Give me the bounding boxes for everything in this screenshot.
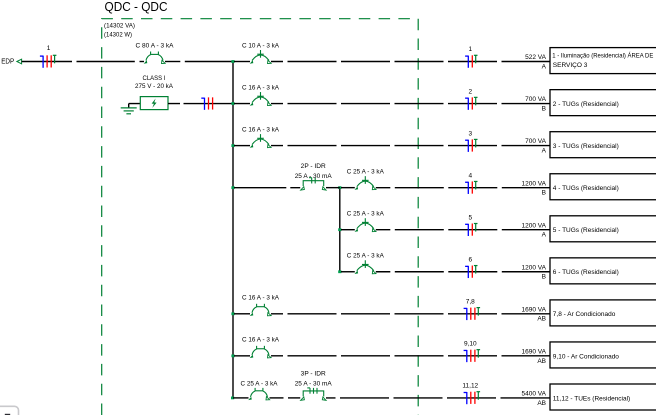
svg-text:7,8 - Ar Condicionado: 7,8 - Ar Condicionado (553, 311, 616, 318)
wire feeder segment 5 (185, 61, 234, 63)
surge protector U-DPS CLASS I (140, 97, 168, 110)
svg-text:QDC - QDC: QDC - QDC (105, 0, 168, 14)
svg-text:EDP: EDP (1, 58, 14, 65)
svg-text:B: B (542, 105, 546, 112)
DPS label CLASS I (143, 75, 166, 82)
circuit 3 phase label A (542, 148, 547, 155)
svg-text:CLASS I: CLASS I (143, 75, 166, 82)
svg-text:4: 4 (468, 172, 472, 179)
load box circuit 5 (550, 216, 656, 242)
circuit 4 phase label B (542, 190, 546, 197)
circuit 1 phase label A (542, 63, 547, 70)
breaker circuit 6 C 25 A - 3 kA (355, 260, 376, 274)
node bus-row3 junction (231, 144, 234, 147)
svg-text:C 25 A - 3 kA: C 25 A - 3 kA (347, 211, 385, 218)
wire circuit 2 bus to breaker (234, 103, 250, 105)
IDR 3P 25 A - 30 mA (301, 388, 326, 400)
load box circuit 3 (550, 132, 656, 158)
circuit 6 conductor marks (465, 266, 477, 279)
svg-text:522 VA: 522 VA (525, 54, 547, 61)
circuit 11,12 power label 5400 VA (522, 391, 547, 398)
panel power label (14302 VA) (104, 22, 135, 29)
circuit 9,10 power label 1690 VA (522, 348, 547, 355)
breaker circuit 5 C 25 A - 3 kA (355, 218, 376, 232)
circuit 5 power label 1200 VA (522, 222, 547, 229)
svg-text:A: A (542, 148, 547, 155)
svg-text:B: B (542, 190, 546, 197)
breaker circuit 9,10 C 16 A - 3 kA (250, 346, 271, 358)
wire circuit 1 breaker to box (271, 61, 550, 63)
circuit 11,12 number label (462, 383, 478, 390)
svg-text:1 - Iluminação (Residencial) Á: 1 - Iluminação (Residencial) ÁREA DE (552, 51, 654, 60)
wire circuit 9,10 breaker to box (271, 355, 550, 357)
load box circuit 2 (550, 90, 656, 116)
circuit 9,10 phase label AB (537, 358, 546, 365)
circuit 6 power label 1200 VA (522, 264, 547, 271)
wire circuit 1 bus to breaker (234, 61, 250, 63)
svg-text:1200 VA: 1200 VA (522, 264, 547, 271)
breaker circuit 7,8 C 16 A - 3 kA (250, 304, 271, 316)
svg-text:A: A (542, 232, 547, 239)
svg-text:25 A - 30 mA: 25 A - 30 mA (295, 380, 333, 387)
node bus-row4 junction (231, 186, 234, 189)
svg-text:(14302 W): (14302 W) (104, 32, 132, 39)
wire circuit 11,12 IDR to box (326, 397, 550, 399)
wire circuit 4 IDR to junction (326, 187, 340, 189)
circuit 9,10 conductor marks (464, 350, 481, 363)
breaker circuit 3 C 16 A - 3 kA (250, 134, 271, 148)
circuit 2 number label (468, 88, 472, 95)
wire feeder segment 1 (22, 61, 72, 63)
svg-text:1200 VA: 1200 VA (522, 222, 547, 229)
circuit 1 power label 522 VA (525, 54, 547, 61)
svg-text:C 25 A - 3 kA: C 25 A - 3 kA (347, 168, 385, 175)
svg-text:25 A - 30 mA: 25 A - 30 mA (295, 173, 333, 180)
circuit 4 power label 1200 VA (522, 180, 547, 187)
circuit 7,8 number label (466, 299, 475, 306)
svg-text:2 - TUGs (Residencial): 2 - TUGs (Residencial) (553, 101, 619, 108)
circuit 1 conductor marks (465, 55, 477, 68)
IDR 2P label line2 (295, 173, 333, 180)
main breaker C 80 A - 3 kA (2P) (144, 52, 165, 64)
wire circuit 9,10 bus to breaker (234, 355, 250, 357)
circuit 3 number label (468, 130, 472, 137)
node IDR-row6 corner (338, 270, 341, 273)
IDR 3P label line2 (295, 380, 333, 387)
svg-text:A: A (542, 63, 547, 70)
ground symbol (121, 108, 137, 114)
wire circuit 6 breaker to box (376, 271, 550, 273)
svg-text:AB: AB (537, 316, 546, 323)
wire IDR branch vertical (339, 188, 341, 272)
svg-text:C 25 A - 3 kA: C 25 A - 3 kA (241, 380, 279, 387)
circuit 5 phase label A (542, 232, 547, 239)
circuit 1 number label (468, 46, 472, 53)
wire circuit 7,8 bus to breaker (234, 313, 250, 315)
DPS conductor marks (N, 2 phases) (201, 97, 212, 110)
wire circuit 4 bus to IDR (234, 187, 300, 189)
load box circuit 7,8 (550, 300, 656, 326)
circuit 5 conductor marks (465, 224, 477, 237)
circuit 9,10 number label (464, 341, 477, 348)
circuit 11,12 phase label AB (537, 400, 546, 407)
wire feeder segment 2 (77, 61, 135, 63)
main breaker label (136, 42, 175, 49)
wire circuit 5 junction to breaker (341, 229, 355, 231)
circuit 4 number label (468, 172, 472, 179)
node IDR-row5 junction (338, 228, 341, 231)
wire circuit 11,12 bus to breaker (233, 397, 249, 399)
svg-text:C 16 A - 3 kA: C 16 A - 3 kA (242, 337, 280, 344)
load box circuit 9,10 (550, 342, 656, 368)
svg-text:700 VA: 700 VA (525, 138, 547, 145)
node EDP label (1, 58, 14, 65)
svg-text:2: 2 (468, 88, 472, 95)
wire circuit 5 breaker to box (376, 229, 550, 231)
wire circuit 3 breaker to box (271, 145, 550, 147)
svg-text:3P - IDR: 3P - IDR (301, 371, 326, 378)
svg-text:2P - IDR: 2P - IDR (301, 163, 326, 170)
node IDR-row4 junction (338, 186, 341, 189)
breaker label circuit 3 (242, 126, 280, 133)
breaker label circuit 5 (347, 211, 385, 218)
wire circuit 11,12 breaker to IDR a (270, 397, 284, 399)
wire circuit 3 bus to breaker (234, 145, 250, 147)
svg-text:C 80 A - 3 kA: C 80 A - 3 kA (136, 42, 175, 49)
circuit 3 conductor marks (465, 139, 477, 152)
svg-text:275 V - 20 kA: 275 V - 20 kA (135, 83, 174, 90)
breaker circuit 11,12 C 25 A - 3 kA (248, 388, 269, 400)
circuit 6 number label (468, 256, 472, 263)
EDP entry arrow (17, 59, 22, 64)
svg-text:C 25 A - 3 kA: C 25 A - 3 kA (347, 253, 385, 260)
breaker circuit 2 C 16 A - 3 kA (250, 92, 271, 106)
circuit 7,8 phase label AB (537, 316, 546, 323)
svg-text:11,12 - TUEs (Residencial): 11,12 - TUEs (Residencial) (553, 395, 630, 402)
breaker label circuit 4 (347, 168, 385, 175)
svg-text:4 - TUGs (Residencial): 4 - TUGs (Residencial) (553, 185, 619, 192)
node bus-row7_8 junction (231, 312, 234, 315)
feeder cable label 1 (47, 45, 51, 52)
breaker label circuit 9,10 (242, 337, 280, 344)
svg-text:6 - TUGs (Residencial): 6 - TUGs (Residencial) (553, 269, 619, 276)
wire main bus vertical (232, 62, 234, 398)
circuit 7,8 conductor marks (464, 308, 481, 321)
circuit 2 conductor marks (465, 97, 477, 110)
svg-text:3 - TUGs (Residencial): 3 - TUGs (Residencial) (553, 143, 619, 150)
breaker label circuit 11,12 (241, 380, 279, 387)
svg-text:C 16 A - 3 kA: C 16 A - 3 kA (242, 295, 280, 302)
circuit 5 number label (468, 214, 472, 221)
panel dashed boundary QDC (102, 19, 419, 415)
svg-text:3: 3 (468, 130, 472, 137)
IDR 3P label line1 (301, 371, 326, 378)
svg-text:AB: AB (537, 358, 546, 365)
title QDC - QDC (105, 0, 168, 14)
circuit 2 power label 700 VA (525, 96, 547, 103)
breaker label circuit 2 (242, 84, 280, 91)
circuit 7,8 power label 1690 VA (522, 306, 547, 313)
wire circuit 11,12 breaker to IDR b (288, 397, 300, 399)
svg-text:SERVIÇO 3: SERVIÇO 3 (553, 62, 588, 69)
svg-text:5 - TUGs (Residencial): 5 - TUGs (Residencial) (553, 227, 619, 234)
circuit 11,12 conductor marks (464, 392, 481, 405)
load box circuit 1 (550, 48, 656, 74)
svg-text:1690 VA: 1690 VA (522, 306, 547, 313)
breaker circuit 1 C 10 A - 3 kA (250, 50, 271, 64)
svg-text:9,10 - Ar Condicionado: 9,10 - Ar Condicionado (553, 353, 620, 360)
wire circuit 4 breaker to box (376, 187, 550, 189)
load box circuit 11,12 (550, 384, 656, 410)
breaker label circuit 1 (242, 42, 280, 49)
wire circuit 7,8 breaker to box (271, 313, 550, 315)
svg-text:6: 6 (468, 256, 472, 263)
circuit 6 phase label B (542, 274, 546, 281)
svg-text:1: 1 (47, 45, 51, 52)
DPS label 275 V - 20 kA (135, 83, 174, 90)
svg-text:1200 VA: 1200 VA (522, 180, 547, 187)
svg-text:AB: AB (537, 400, 546, 407)
svg-text:5: 5 (468, 214, 472, 221)
svg-text:700 VA: 700 VA (525, 96, 547, 103)
node bus bottom corner (231, 397, 234, 400)
svg-text:9,10: 9,10 (464, 341, 477, 348)
wire DPS to bus segment 2 (184, 103, 234, 105)
wire ground to DPS (129, 104, 141, 108)
feeder conductor marks (N, 2 phases, PE) (40, 55, 57, 68)
svg-text:C 16 A - 3 kA: C 16 A - 3 kA (242, 126, 280, 133)
IDR 2P label line1 (301, 163, 326, 170)
wire circuit 6 junction to breaker (341, 271, 355, 273)
svg-text:5400 VA: 5400 VA (522, 391, 547, 398)
node bus-row9_10 junction (231, 354, 234, 357)
circuit 4 conductor marks (465, 181, 477, 194)
svg-text:11,12: 11,12 (462, 383, 478, 390)
panel power label (14302 W) (104, 32, 132, 39)
wire feeder segment 4 (165, 61, 180, 63)
wire circuit 4 junction to breaker (341, 187, 355, 189)
svg-text:C 16 A - 3 kA: C 16 A - 3 kA (242, 84, 280, 91)
IDR 2P 25 A - 30 mA (301, 178, 326, 190)
breaker label circuit 6 (347, 253, 385, 260)
svg-text:(14302 VA): (14302 VA) (104, 22, 135, 29)
UI widget fragment bottom-left (0, 406, 19, 415)
circuit 2 phase label B (542, 105, 546, 112)
svg-text:C 10 A - 3 kA: C 10 A - 3 kA (242, 42, 280, 49)
wire DPS to bus segment 1 (168, 103, 180, 105)
node bus top corner (231, 60, 234, 63)
svg-text:1: 1 (468, 46, 472, 53)
svg-text:7,8: 7,8 (466, 299, 475, 306)
breaker circuit 4 C 25 A - 3 kA (355, 176, 376, 190)
load box circuit 6 (550, 258, 656, 284)
svg-text:B: B (542, 274, 546, 281)
breaker label circuit 7,8 (242, 295, 280, 302)
wire feeder segment 3 (140, 61, 145, 63)
wire circuit 2 breaker to box (271, 103, 550, 105)
circuit 3 power label 700 VA (525, 138, 547, 145)
load box circuit 4 (550, 174, 656, 200)
svg-text:1690 VA: 1690 VA (522, 348, 547, 355)
node bus-row2 junction (231, 102, 234, 105)
